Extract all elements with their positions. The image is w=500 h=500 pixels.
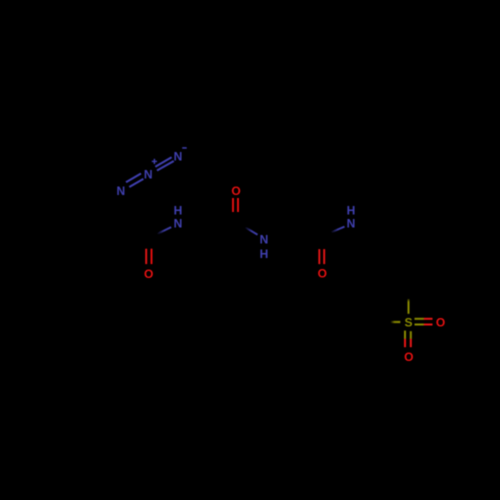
svg-text:N: N — [347, 217, 356, 231]
double bond N2=N3 line a — [155, 157, 171, 167]
svg-text:N: N — [144, 167, 153, 181]
svg-text:S: S — [404, 315, 412, 329]
double bond C3=O3 line a — [318, 249, 320, 264]
double bond S=O down line a sulfur half — [404, 331, 406, 339]
plus charge on N2 — [152, 159, 157, 164]
double bond C1=O1 line a — [145, 249, 147, 264]
double bond S=O right line a oxygen half — [424, 318, 433, 320]
bond C1-N (amide 1) blue half — [157, 227, 171, 234]
svg-text:N: N — [260, 232, 269, 246]
svg-text:O: O — [404, 350, 413, 364]
double bond C2=O2 line a — [232, 198, 234, 212]
svg-text:O: O — [144, 267, 153, 281]
svg-text:O: O — [318, 267, 327, 281]
double bond S=O down line b oxygen half — [410, 339, 412, 348]
svg-text:H: H — [260, 247, 269, 261]
svg-text:N: N — [174, 217, 183, 231]
bond S-ring yellow half — [408, 299, 410, 314]
svg-text:O: O — [436, 316, 445, 330]
double bond S=O down line a oxygen half — [404, 339, 406, 348]
svg-text:H: H — [347, 204, 356, 218]
double bond S=O right line b oxygen half — [424, 324, 433, 326]
double bond N2=N3 line b — [157, 161, 174, 171]
bond C3-N (amide 3) blue half — [331, 227, 345, 233]
double bond C1=O1 line b — [151, 249, 153, 264]
double bond S=O down line b sulfur half — [410, 331, 412, 339]
minus charge on N3 — [182, 147, 187, 149]
svg-text:O: O — [231, 184, 240, 198]
svg-text:N: N — [116, 184, 125, 198]
svg-text:N: N — [174, 150, 183, 164]
double bond C3=O3 line b — [323, 249, 325, 264]
bond S-CH3 yellow half — [391, 321, 401, 323]
double bond N1=N2 line b — [129, 179, 143, 187]
bond C2-N (amide 2) blue half — [245, 227, 258, 235]
double bond S=O right line b sulfur half — [415, 324, 424, 326]
double bond N1=N2 line a — [126, 174, 141, 183]
double bond C2=O2 line b — [237, 198, 239, 212]
double bond S=O right line a sulfur half — [415, 318, 424, 320]
svg-text:H: H — [174, 204, 183, 218]
